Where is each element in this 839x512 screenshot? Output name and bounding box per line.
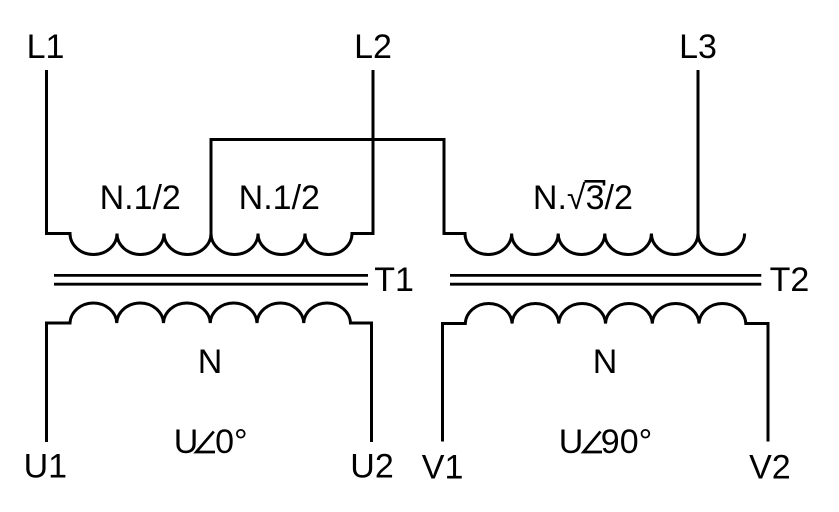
svg-text:V1: V1 (422, 449, 464, 487)
svg-text:U: U (559, 423, 584, 461)
svg-text:L2: L2 (354, 28, 392, 66)
svg-text:T1: T1 (374, 261, 414, 299)
angle symbol of U angle 0 (196, 432, 215, 453)
svg-text:90°: 90° (601, 423, 652, 461)
svg-text:N.√3/2: N.√3/2 (533, 179, 633, 217)
svg-text:L3: L3 (679, 28, 717, 66)
transformer T2 secondary winding + wires to V1 and V2 (443, 303, 769, 441)
svg-text:U: U (174, 423, 199, 461)
svg-text:U1: U1 (24, 448, 67, 486)
wire L3 lead (697, 70, 700, 234)
transformer T1 secondary winding + wires to U1 and U2 (47, 303, 372, 442)
wire L1 lead + transformer T1 primary winding + wire L2 lead (47, 70, 374, 255)
wire T1 primary center tap to T2 primary + transformer T2 primary winding (211, 140, 745, 255)
transformer T1 core (54, 275, 368, 284)
svg-text:V2: V2 (749, 449, 791, 487)
svg-text:L1: L1 (27, 28, 65, 66)
svg-text:N.1/2: N.1/2 (239, 179, 320, 217)
transformer T2 core (450, 275, 761, 284)
svg-text:T2: T2 (770, 261, 810, 299)
svg-text:N: N (198, 343, 223, 381)
vinculum overbar of sqrt 3 (585, 181, 605, 185)
svg-text:0°: 0° (215, 423, 248, 461)
angle symbol of U angle 90 (584, 432, 603, 453)
svg-text:U2: U2 (350, 448, 393, 486)
svg-text:N.1/2: N.1/2 (100, 179, 181, 217)
svg-text:N: N (593, 343, 618, 381)
